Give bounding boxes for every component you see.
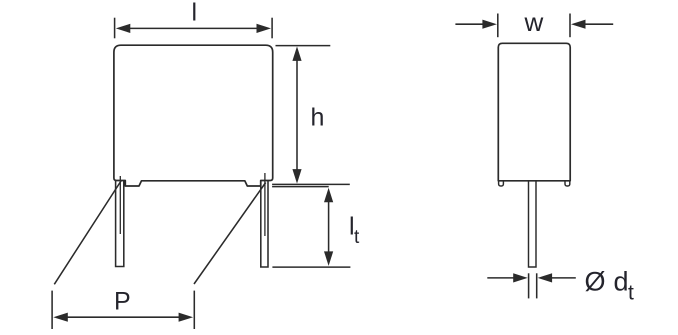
dimension w left arrow: [455, 20, 497, 29]
svg-text:h: h: [311, 104, 325, 132]
dimension w right arrow: [571, 20, 613, 29]
dimension P arrow line: [53, 313, 193, 322]
label lt: [349, 212, 360, 247]
svg-text:t: t: [628, 282, 634, 305]
right splayed lead diagonal: [194, 183, 266, 285]
dimension l ticks: [115, 18, 273, 39]
right foot: [565, 181, 570, 186]
svg-text:l: l: [192, 0, 198, 27]
dimension h arrow: [292, 46, 301, 183]
lead diameter ticks: [529, 273, 537, 298]
svg-text:d: d: [614, 267, 629, 297]
dimension P ticks: [52, 291, 194, 329]
label diameter dt: [585, 267, 635, 305]
side view lead: [529, 181, 537, 267]
capacitor body side view: [498, 43, 570, 181]
dimension dt left arrow: [487, 273, 527, 282]
capacitor body front view: [114, 45, 273, 186]
right lead: [261, 173, 268, 267]
svg-text:w: w: [524, 7, 544, 37]
dimension l arrow line: [116, 24, 271, 33]
dimension dt right arrow: [538, 273, 576, 282]
dimension lt arrow: [324, 188, 333, 266]
left lead: [116, 176, 124, 267]
dimension w ticks: [498, 14, 570, 38]
svg-text:P: P: [114, 288, 131, 316]
left foot: [499, 181, 504, 186]
svg-text:t: t: [354, 227, 360, 248]
seat extension line lower: [272, 186, 329, 188]
svg-text:Ø: Ø: [585, 267, 606, 297]
h top extension line: [276, 45, 331, 47]
left splayed lead diagonal: [54, 181, 121, 285]
lead end extension line: [272, 266, 350, 268]
seat extension line upper: [272, 183, 350, 185]
